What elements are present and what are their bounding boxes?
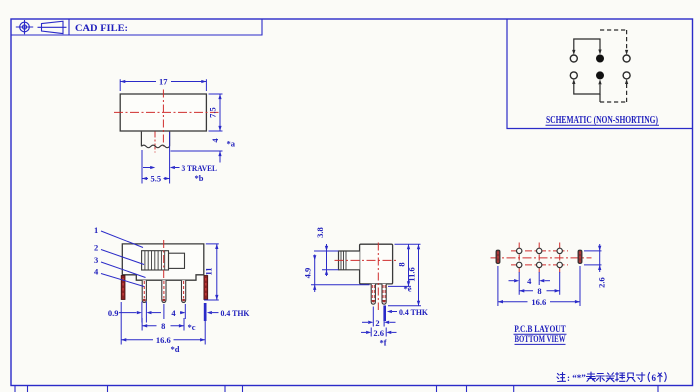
note: zhu colon xyxy=(557,373,566,382)
dim 8 row *c xyxy=(142,318,184,331)
dim 16.6 pcb xyxy=(498,266,580,306)
svg-text:3.8: 3.8 xyxy=(315,227,325,238)
dim 4.9 xyxy=(311,255,370,293)
switch body front view xyxy=(120,94,206,131)
svg-text:8: 8 xyxy=(161,321,165,331)
note: cun xyxy=(636,373,645,382)
0.4 thick section bar xyxy=(204,303,207,321)
dim 8 right xyxy=(388,244,421,286)
red column centerlines xyxy=(519,243,560,275)
note: jian xyxy=(615,373,625,382)
title box (CAD FILE) xyxy=(11,19,262,35)
svg-text:3: 3 xyxy=(94,255,98,265)
svg-text:11: 11 xyxy=(204,267,214,275)
bracket slot right xyxy=(578,250,582,263)
actuator stem side xyxy=(339,251,360,270)
common pins: filled circles xyxy=(596,55,604,80)
dim 8 pcb xyxy=(519,272,560,295)
dim 3.8 xyxy=(314,244,339,276)
0.4 thick section bar (end view) xyxy=(383,306,386,322)
dashed wire bracket top xyxy=(600,30,627,102)
mounting bracket leg right xyxy=(204,276,208,300)
dim 5.5 xyxy=(142,178,170,180)
svg-text:3 TRAVEL: 3 TRAVEL xyxy=(182,163,218,173)
slider cover plate xyxy=(169,253,185,268)
svg-text:*a: *a xyxy=(227,139,236,149)
svg-text:2.6: 2.6 xyxy=(373,328,384,338)
first-angle projection target symbol xyxy=(16,20,33,34)
stem knurl end lines xyxy=(341,251,346,270)
svg-text:11.6: 11.6 xyxy=(407,267,417,281)
dim 4 *a xyxy=(171,151,223,163)
wire arrows xyxy=(572,50,575,55)
svg-text:BOTTOM VIEW: BOTTOM VIEW xyxy=(515,335,566,345)
solid wire bracket top (pos 1) xyxy=(574,39,600,102)
red vertical body centerline xyxy=(162,90,164,147)
terminal leg 1 xyxy=(142,280,146,302)
red row centerlines xyxy=(511,251,568,265)
note: biao xyxy=(587,372,596,382)
bracket slot left xyxy=(496,250,500,263)
actuator stem with broken (wavy) end xyxy=(141,132,169,148)
svg-text:*d: *d xyxy=(171,344,180,354)
switch body side view outline xyxy=(122,244,204,280)
svg-text:1: 1 xyxy=(94,225,98,235)
svg-text:0.9: 0.9 xyxy=(108,308,119,318)
terminal leg 3 xyxy=(182,280,186,302)
dim 2.6 right of pcb xyxy=(584,244,602,272)
knurled actuator knob xyxy=(142,251,169,270)
terminal pins: open circles xyxy=(570,55,630,79)
svg-text:2: 2 xyxy=(94,243,98,253)
svg-text:16.6: 16.6 xyxy=(156,335,171,345)
bottom table column stubs xyxy=(15,386,658,392)
dim 17 arrows xyxy=(120,80,125,83)
note: chi xyxy=(627,373,635,382)
dim 0.9 row xyxy=(119,302,219,323)
svg-text:0.4 THK: 0.4 THK xyxy=(399,307,428,317)
projection cone symbol xyxy=(38,21,67,33)
note: guan xyxy=(606,373,615,382)
dim 16.6 row *d xyxy=(121,321,205,345)
svg-text:8: 8 xyxy=(537,286,541,296)
svg-text:*f: *f xyxy=(380,338,387,348)
svg-text:CAD FILE:: CAD FILE: xyxy=(75,24,128,34)
dim 2 bottom xyxy=(362,307,396,327)
svg-text:4.9: 4.9 xyxy=(303,268,313,279)
terminal leg 2 xyxy=(162,280,166,302)
dim 17 text xyxy=(156,77,171,86)
switch body end view xyxy=(360,244,393,284)
svg-text:17: 17 xyxy=(159,77,168,87)
svg-text:SCHEMATIC (NON-SHORTING): SCHEMATIC (NON-SHORTING) xyxy=(546,115,658,126)
svg-text:: “*”: : “*” xyxy=(567,373,586,383)
red vertical centerline xyxy=(163,240,165,284)
svg-text:7.5: 7.5 xyxy=(208,107,218,118)
red horizontal centerline xyxy=(335,259,398,261)
svg-text:16.6: 16.6 xyxy=(531,297,546,307)
schematic box xyxy=(507,19,693,129)
dim 4 pcb xyxy=(509,272,551,285)
knurl ridges xyxy=(145,251,165,270)
svg-text:0.4 THK: 0.4 THK xyxy=(221,308,250,318)
svg-text:6: 6 xyxy=(652,373,657,383)
svg-text:*c: *c xyxy=(188,322,196,332)
dim 2.6 bottom *f xyxy=(361,328,397,337)
note: shi xyxy=(596,374,604,382)
mounting bracket leg left xyxy=(121,276,125,300)
dim 11 right xyxy=(204,244,219,300)
svg-text:P.C.B LAYOUT: P.C.B LAYOUT xyxy=(514,325,566,335)
dim 0.4 THK leader xyxy=(392,311,397,313)
terminal leg front xyxy=(371,284,375,304)
svg-text:2: 2 xyxy=(375,318,379,328)
red vertical stem centerline xyxy=(154,132,156,153)
dim 3 TRAVEL *b xyxy=(142,132,180,184)
svg-text:8: 8 xyxy=(397,262,407,266)
dim 11.6 right xyxy=(388,244,421,306)
mounting leg behind xyxy=(382,284,386,304)
note: (6 ge) xyxy=(648,373,666,382)
svg-text:2.6: 2.6 xyxy=(597,277,607,288)
dim 7.5 xyxy=(209,94,223,131)
svg-text:5.5: 5.5 xyxy=(150,174,161,184)
svg-text:*e: *e xyxy=(404,283,412,293)
red horizontal centerline xyxy=(114,111,219,113)
red vertical centerline xyxy=(377,243,379,311)
svg-text:*b: *b xyxy=(195,173,204,183)
pad holes xyxy=(517,248,563,267)
dim 17 extension lines xyxy=(120,79,206,91)
svg-text:4: 4 xyxy=(527,276,532,286)
red main centerline xyxy=(491,257,592,259)
